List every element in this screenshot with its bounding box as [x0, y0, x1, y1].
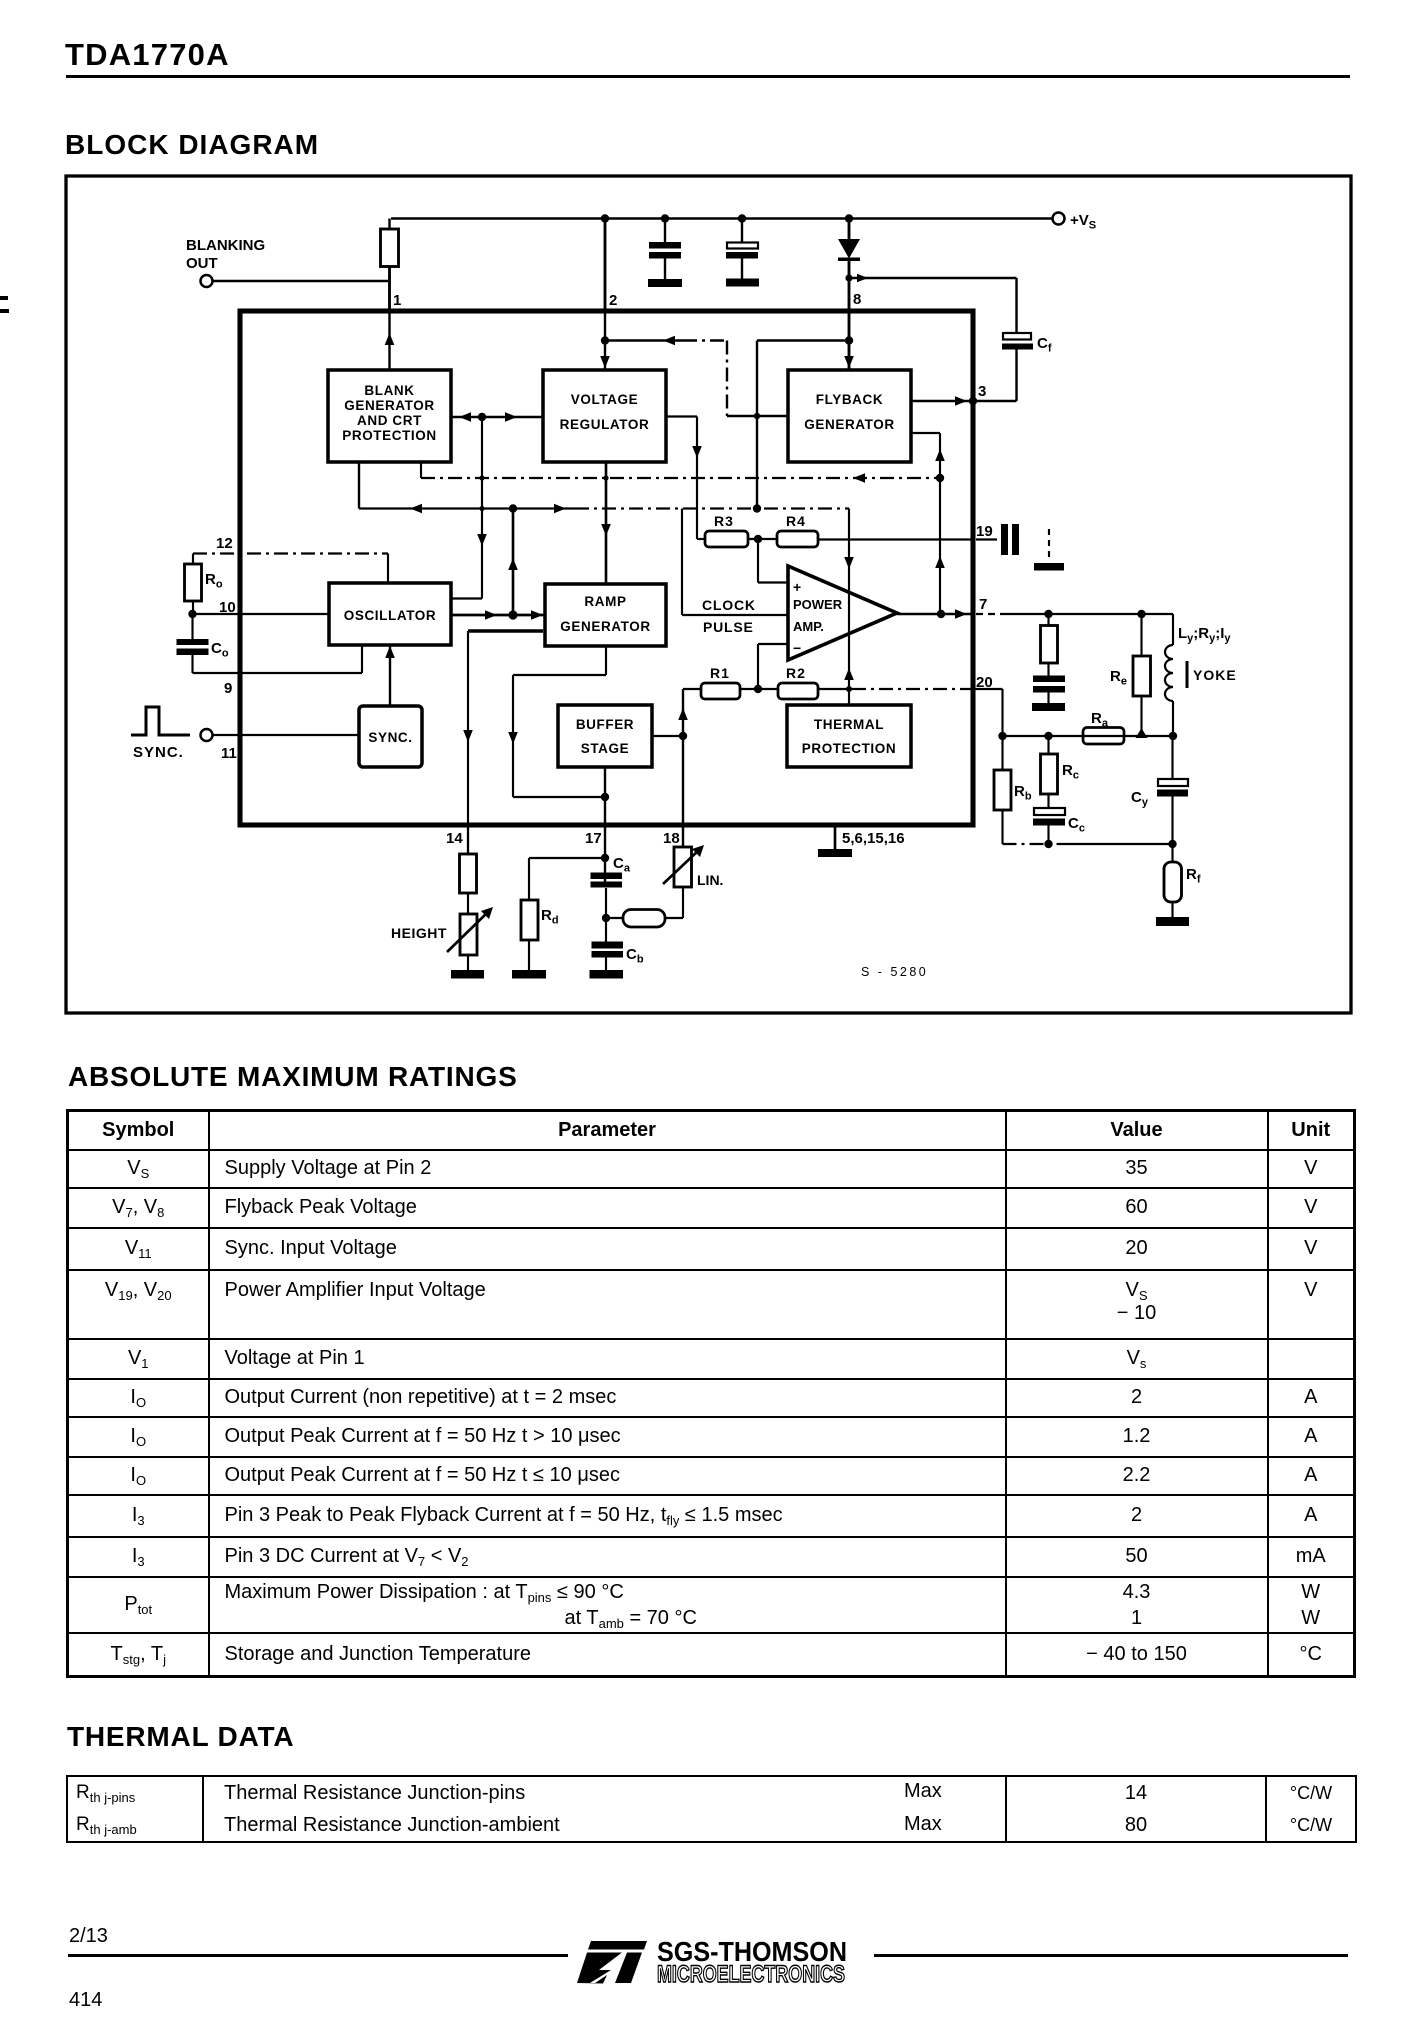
- wire dash-dot bus y478: [421, 473, 944, 483]
- wire ramp feed x513: [508, 509, 518, 616]
- svg-text:Ca: Ca: [613, 855, 631, 875]
- pin 14 label: [446, 830, 463, 847]
- wire pin 8 into flyback generator: [844, 311, 854, 370]
- wire amp output to pin 7: [897, 609, 973, 619]
- junction at flyback top: [845, 336, 853, 344]
- logo ST symbol: [577, 1941, 647, 1984]
- resistor series to LIN: [606, 887, 683, 927]
- ground below Rf: [1156, 917, 1189, 926]
- svg-text:S - 5280: S - 5280: [861, 965, 928, 979]
- terminal +Vs: [1053, 212, 1097, 232]
- svg-text:17: 17: [585, 830, 602, 847]
- wire vertical x482 to oscillator: [477, 417, 487, 599]
- wire R1 left link: [683, 688, 701, 690]
- junction Ca Cb node: [602, 914, 610, 922]
- wire clock pulse to power amp: [682, 509, 788, 616]
- label YOKE: [1187, 661, 1237, 688]
- svg-text:AMP.: AMP.: [793, 619, 824, 634]
- svg-text:Cb: Cb: [626, 946, 644, 966]
- svg-text:BLANKING: BLANKING: [186, 237, 265, 254]
- svg-text:5,6,15,16: 5,6,15,16: [842, 830, 905, 847]
- resistor height network fixed part: [460, 826, 477, 893]
- wire internal rail A: [359, 504, 849, 514]
- svg-text:RAMP: RAMP: [584, 594, 626, 609]
- block flyback generator: [788, 370, 911, 462]
- block voltage regulator: [543, 370, 666, 462]
- svg-text:R3: R3: [714, 513, 734, 529]
- wire pin 10: [193, 613, 330, 615]
- wire pin 12 dash-dot to oscillator: [193, 554, 388, 584]
- diagram border frame: [66, 176, 1351, 1013]
- wire pin 7 output line: [976, 610, 1173, 618]
- resistor Ra: [1083, 710, 1124, 744]
- wire +Vs supply rail: [391, 217, 1053, 219]
- junction pin2 on rail: [601, 214, 609, 222]
- svg-text:12: 12: [216, 535, 233, 552]
- pin 18 label: [663, 830, 680, 847]
- wire pin 11 to sync block: [213, 734, 359, 736]
- ground below Cb: [590, 970, 624, 979]
- capacitor C1 supply decoupling: [649, 219, 681, 280]
- svg-text:11: 11: [221, 745, 237, 762]
- ground snubber: [1032, 703, 1065, 711]
- svg-text:OSCILLATOR: OSCILLATOR: [344, 608, 437, 623]
- inductor yoke Ly: [1165, 614, 1173, 736]
- wire pin 3 flyback output: [911, 396, 1017, 406]
- wire ramp generator to pin 17: [508, 646, 609, 801]
- capacitor C2 supply decoupling: [726, 219, 758, 279]
- svg-text:AND CRT: AND CRT: [357, 413, 422, 428]
- pin 19 label: [976, 523, 993, 540]
- resistor Ro: [185, 554, 223, 615]
- label BLANKING OUT: [186, 237, 265, 272]
- wire voltage regulator right stub: [666, 417, 705, 540]
- svg-text:Re: Re: [1110, 668, 1127, 688]
- resistor R1: [701, 665, 740, 699]
- label Ly Ry Iy: [1178, 625, 1231, 645]
- wire bottom return rail: [1003, 840, 1177, 848]
- svg-text:FLYBACK: FLYBACK: [816, 392, 883, 407]
- svg-text:BLANK: BLANK: [364, 383, 414, 398]
- wire sync block to oscillator: [385, 645, 395, 706]
- block thermal protection: [787, 705, 911, 767]
- svg-text:Rc: Rc: [1062, 762, 1079, 782]
- svg-text:18: 18: [663, 830, 680, 847]
- svg-text:POWER: POWER: [793, 597, 843, 612]
- wire pin 1 into blank generator: [385, 311, 395, 370]
- wire pin 19 external dash: [976, 538, 997, 540]
- wire voltage regulator to ramp generator: [601, 462, 611, 584]
- diode D1 supply to pin 8: [838, 219, 860, 312]
- svg-text:3: 3: [978, 383, 986, 400]
- wire pin 20 external: [973, 689, 1003, 770]
- svg-text:OUT: OUT: [186, 255, 218, 272]
- wire pin 2 from rail: [605, 219, 617, 312]
- ground below C1: [648, 279, 682, 287]
- pin 20 label: [976, 674, 993, 691]
- wire pin 17 buffer output: [601, 767, 609, 888]
- pin 17 label: [585, 830, 602, 847]
- resistor blanking pull-up at pin 1: [381, 219, 399, 312]
- resistor output snubber: [1041, 614, 1058, 663]
- capacitor Ca: [591, 855, 631, 918]
- svg-text:GENERATOR: GENERATOR: [560, 619, 650, 634]
- pin 10 label: [219, 599, 236, 616]
- junction diode on rail: [845, 214, 853, 222]
- svg-text:Ra: Ra: [1091, 710, 1109, 730]
- resistor R3: [705, 513, 748, 547]
- wire top link to pin8 node: [757, 339, 849, 341]
- ground below height pot: [451, 955, 484, 979]
- svg-text:Ly;Ry;Iy: Ly;Ry;Iy: [1178, 625, 1231, 645]
- svg-text:+: +: [793, 579, 801, 595]
- svg-text:GENERATOR: GENERATOR: [804, 417, 894, 432]
- wire pin 2 into voltage regulator: [600, 311, 610, 370]
- svg-text:8: 8: [853, 291, 861, 308]
- svg-text:−: −: [793, 640, 801, 656]
- resistor Rb: [994, 770, 1032, 844]
- svg-text:VOLTAGE: VOLTAGE: [571, 392, 638, 407]
- svg-text:MICROELECTRONICS: MICROELECTRONICS: [657, 1961, 845, 1988]
- svg-text:SYNC.: SYNC.: [368, 730, 412, 745]
- wire amp plus input: [758, 540, 788, 583]
- pin 8 label: [853, 291, 861, 308]
- capacitor Co: [177, 614, 229, 673]
- capacitor pin 19 coupling bars: [1001, 524, 1019, 555]
- junction Ro Co pin10: [188, 610, 196, 618]
- svg-text:14: 14: [446, 830, 463, 847]
- pin 12 label: [216, 535, 233, 552]
- svg-text:1: 1: [393, 292, 401, 309]
- svg-text:Rb: Rb: [1014, 783, 1032, 803]
- ground below Rd: [512, 940, 546, 979]
- wire R3 to R4: [748, 535, 777, 543]
- wire thermal protection to amp: [844, 509, 854, 706]
- potentiometer LIN: [663, 825, 723, 888]
- svg-text:+VS: +VS: [1070, 212, 1096, 232]
- svg-text:9: 9: [224, 680, 232, 697]
- svg-text:7: 7: [979, 596, 987, 613]
- block blank generator and CRT protection: [328, 370, 451, 462]
- potentiometer HEIGHT: [391, 893, 493, 955]
- junction node 8 branch: [845, 274, 1016, 282]
- capacitor Cf: [1002, 278, 1052, 401]
- resistor R4: [777, 513, 818, 547]
- wire R1 to R2: [740, 685, 778, 693]
- svg-text:THERMAL: THERMAL: [814, 717, 884, 732]
- svg-text:LIN.: LIN.: [697, 872, 723, 888]
- svg-text:REGULATOR: REGULATOR: [560, 417, 650, 432]
- svg-text:19: 19: [976, 523, 993, 540]
- wire pin 20 input: [818, 688, 973, 690]
- capacitor Cc: [1033, 794, 1085, 844]
- svg-text:PROTECTION: PROTECTION: [342, 428, 437, 443]
- svg-text:Rf: Rf: [1186, 866, 1201, 886]
- svg-text:Rd: Rd: [541, 907, 559, 927]
- svg-text:SYNC.: SYNC.: [133, 744, 184, 761]
- resistor Rc: [1041, 736, 1079, 794]
- svg-text:Cf: Cf: [1037, 335, 1052, 355]
- svg-text:Co: Co: [211, 640, 229, 660]
- resistor Rf: [1164, 844, 1201, 917]
- wire flyback right stub to output line: [911, 433, 945, 614]
- svg-text:STAGE: STAGE: [581, 741, 630, 756]
- junction Re to Ra line: [1136, 728, 1148, 738]
- wire Rd to pin 17 node: [529, 858, 605, 900]
- pin 7 label: [979, 596, 987, 613]
- svg-text:2: 2: [609, 292, 617, 309]
- svg-text:PULSE: PULSE: [703, 619, 754, 635]
- wire blank gen bottom left stub: [358, 462, 360, 509]
- svg-text:GENERATOR: GENERATOR: [344, 398, 434, 413]
- svg-text:R2: R2: [786, 665, 806, 681]
- wire pin2 node to flyback supply branch: [605, 336, 683, 346]
- block buffer stage: [558, 705, 652, 767]
- junction C2 on rail: [738, 214, 746, 222]
- svg-text:R4: R4: [786, 513, 806, 529]
- op-amp power amplifier: [788, 566, 897, 660]
- svg-text:Cc: Cc: [1068, 815, 1085, 835]
- capacitor output snubber: [1033, 663, 1065, 703]
- ground dashed pin 19: [1034, 529, 1064, 571]
- IC TDA1770A boundary: [240, 311, 973, 825]
- wire vertical supply drop x757: [756, 341, 758, 509]
- wire Ra feedback line: [998, 732, 1177, 740]
- svg-text:BUFFER: BUFFER: [576, 717, 634, 732]
- wire oscillator to ramp generator: [451, 610, 545, 620]
- block sync: [359, 706, 422, 767]
- pin 9 label: [224, 680, 232, 697]
- ground pins 5 6 15 16: [818, 825, 905, 857]
- wire buffer stage to R1 node: [652, 689, 688, 825]
- wire dash-dot elbow to flyback feed: [683, 341, 728, 417]
- svg-text:CLOCK: CLOCK: [702, 597, 756, 613]
- terminal BLANKING OUT: [201, 275, 213, 287]
- wire blank gen bottom right stub: [420, 462, 422, 478]
- wire blank generator to voltage regulator: [451, 412, 543, 422]
- terminal sync input: [201, 729, 213, 741]
- pin 1 label: [393, 292, 401, 309]
- label SYNC input: [133, 744, 184, 761]
- svg-text:HEIGHT: HEIGHT: [391, 925, 447, 941]
- junction C1 on rail: [661, 214, 669, 222]
- wire pin 19 feedback: [818, 538, 973, 540]
- svg-text:Ro: Ro: [205, 571, 223, 591]
- wire pin 9 to oscillator: [193, 645, 363, 673]
- block oscillator: [329, 583, 451, 645]
- wire blanking out to pin 1: [213, 280, 390, 282]
- wire into flyback left edge: [727, 413, 788, 419]
- wire amp minus input: [758, 644, 788, 689]
- pin 3 label: [978, 383, 986, 400]
- label CLOCK PULSE: [702, 597, 756, 635]
- resistor R2: [778, 665, 818, 699]
- svg-text:PROTECTION: PROTECTION: [802, 741, 897, 756]
- svg-text:YOKE: YOKE: [1193, 667, 1237, 683]
- capacitor Cy: [1131, 736, 1188, 844]
- pin 11 label: [221, 745, 237, 762]
- ground below C2: [726, 279, 759, 287]
- block ramp generator: [545, 584, 666, 646]
- sync input waveform symbol: [131, 707, 190, 735]
- resistor Rd: [521, 900, 559, 940]
- svg-text:R1: R1: [710, 665, 730, 681]
- label S-5280: [861, 965, 928, 979]
- svg-text:Cy: Cy: [1131, 789, 1149, 809]
- wire pin 14 from ramp generator: [463, 631, 543, 854]
- capacitor Cb: [592, 918, 644, 970]
- wire oscillator right stub upper: [451, 597, 482, 599]
- resistor Re: [1110, 614, 1151, 736]
